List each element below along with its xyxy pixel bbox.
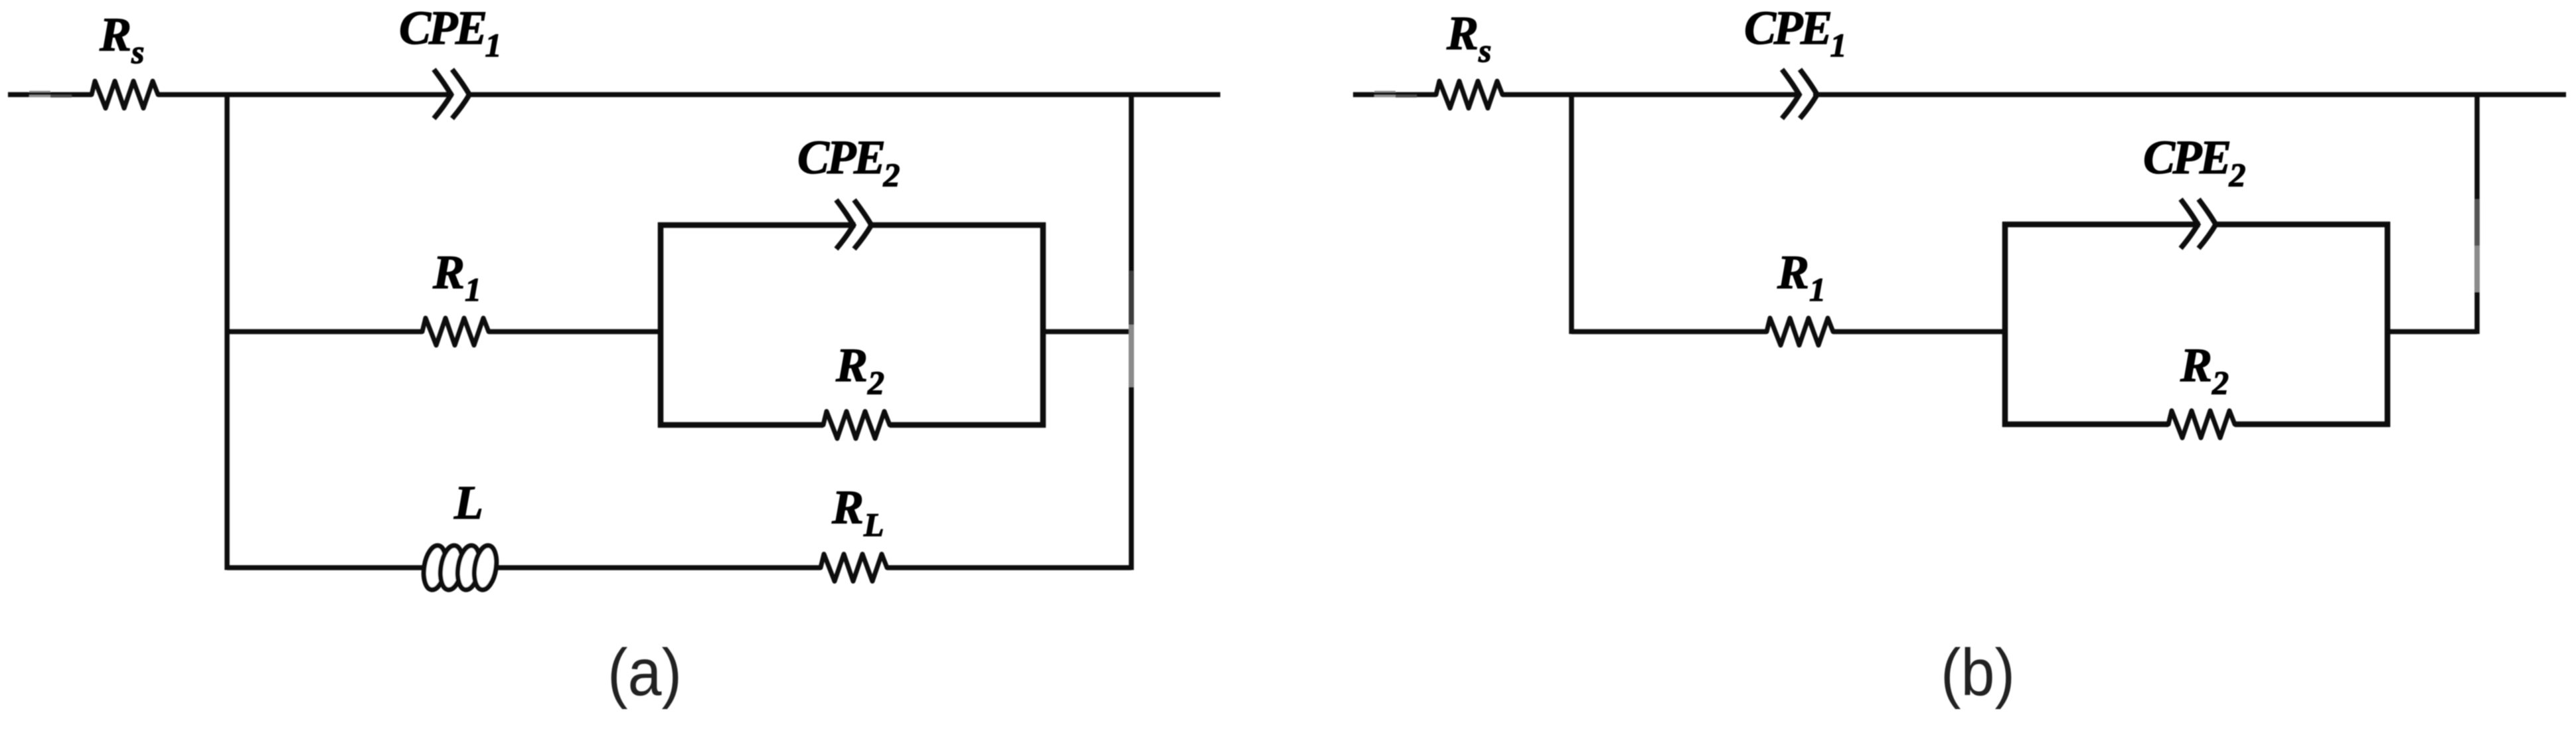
svg-text:L: L (453, 476, 483, 529)
svg-text:(a): (a) (607, 635, 682, 710)
svg-text:(b): (b) (1941, 635, 2015, 710)
svg-text:CPE1: CPE1 (1744, 1, 1844, 64)
svg-text:CPE1: CPE1 (399, 1, 499, 64)
